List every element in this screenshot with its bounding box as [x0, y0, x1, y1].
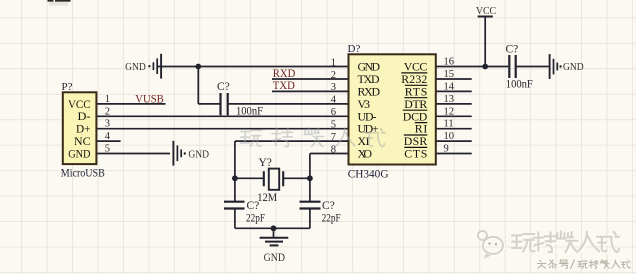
U1 left pin names [358, 60, 381, 161]
wire XI drop [234, 141, 236, 201]
svg-text:2: 2 [105, 106, 110, 117]
ground GND mid-left (P5) [173, 141, 186, 166]
connector P1 MicroUSB box [63, 92, 97, 164]
watermark bottom-right big text [513, 233, 620, 254]
svg-text:12: 12 [444, 106, 455, 117]
svg-text:13: 13 [444, 94, 455, 105]
ground earth crystal [260, 238, 289, 246]
wire VCC stem [484, 17, 486, 67]
capacitor C? top-right 100nF [509, 55, 515, 78]
wire NC stub [97, 140, 121, 142]
svg-text:100nF: 100nF [506, 78, 533, 90]
svg-text:9: 9 [444, 144, 449, 155]
svg-text:GND: GND [188, 148, 209, 160]
ground GND top-right [550, 54, 562, 79]
wire crystal left [235, 177, 264, 179]
svg-text:16: 16 [444, 57, 455, 68]
svg-text:GND: GND [125, 61, 146, 73]
wire row1 GND-to-chip [158, 66, 349, 68]
svg-text:6: 6 [331, 107, 336, 118]
wire cap bottoms to rail [235, 209, 310, 228]
capacitor C? left 22pF [224, 202, 245, 209]
svg-text:22pF: 22pF [322, 212, 341, 224]
svg-text:4: 4 [105, 131, 111, 142]
wire cap-to-chip V3 [229, 103, 349, 105]
svg-text:15: 15 [444, 69, 455, 80]
wire XO [310, 153, 349, 155]
wire row2 RXD [272, 78, 349, 80]
chip right pin stubs [436, 79, 472, 154]
svg-text:Y?: Y? [259, 157, 272, 169]
svg-text:GND: GND [68, 146, 91, 160]
svg-text:C?: C? [506, 44, 519, 56]
wire junction-to-cap [198, 103, 219, 105]
wire row5 D- [97, 115, 349, 117]
svg-text:11: 11 [444, 119, 454, 130]
svg-text:VUSB: VUSB [135, 93, 164, 105]
crystal Y1 [264, 171, 283, 186]
wire row3 TXD [272, 90, 349, 92]
capacitor C? right 22pF [300, 202, 321, 209]
svg-text:3: 3 [331, 82, 336, 93]
svg-text:CTS: CTS [404, 147, 427, 161]
svg-text:4: 4 [331, 95, 337, 106]
top cut-off text [48, 0, 54, 2]
svg-text:5: 5 [331, 120, 336, 131]
node junction dots [195, 64, 201, 70]
svg-text:XO: XO [358, 147, 373, 161]
svg-text:10: 10 [444, 131, 455, 142]
svg-text:TXD: TXD [273, 80, 295, 92]
wire gnd-junction drop [197, 67, 199, 104]
wire earth stem [273, 228, 275, 237]
svg-text:5: 5 [105, 144, 110, 155]
wire XI [235, 140, 349, 142]
svg-text:C?: C? [217, 81, 230, 93]
svg-text:GND: GND [264, 252, 285, 264]
wire VUSB [97, 103, 166, 105]
IC U1 CH340G box [349, 54, 436, 164]
wire P5 gnd [97, 153, 170, 155]
wire row1 chip-to-cap [436, 66, 508, 68]
wire XO drop [309, 154, 311, 202]
capacitor C? mid 100nF [221, 93, 228, 115]
wire bottom rail [235, 227, 310, 229]
svg-text:7: 7 [331, 132, 336, 143]
svg-text:12M: 12M [257, 192, 277, 204]
svg-text:2: 2 [331, 70, 336, 81]
svg-text:22pF: 22pF [246, 212, 265, 224]
wire cap-to-gnd right [517, 66, 549, 68]
svg-text:P?: P? [62, 81, 73, 93]
svg-text:100nF: 100nF [236, 105, 263, 117]
ground GND top-left [148, 54, 161, 79]
svg-text:1: 1 [105, 94, 110, 105]
svg-text:GND: GND [563, 61, 584, 73]
svg-text:3: 3 [105, 119, 110, 130]
svg-text:MicroUSB: MicroUSB [61, 167, 105, 179]
svg-text:CH340G: CH340G [348, 168, 389, 180]
U1 right pin numbers [444, 57, 455, 155]
svg-text:D?: D? [348, 43, 361, 55]
svg-text:C?: C? [322, 200, 335, 212]
svg-text:RXD: RXD [273, 68, 296, 80]
power VCC [478, 16, 493, 18]
U1 overlines active-low [401, 73, 427, 147]
watermark bottom-right small text [537, 260, 630, 270]
U1 right pin names [401, 60, 427, 161]
svg-text:VCC: VCC [476, 5, 496, 17]
wire crystal right [283, 177, 310, 179]
watermark center overlay [240, 128, 385, 147]
watermark bottom-right logo [479, 232, 504, 255]
wire row6 D+ [97, 128, 349, 130]
U1 left pin numbers [331, 57, 337, 155]
svg-text:14: 14 [444, 81, 455, 92]
svg-text:1: 1 [331, 57, 336, 68]
